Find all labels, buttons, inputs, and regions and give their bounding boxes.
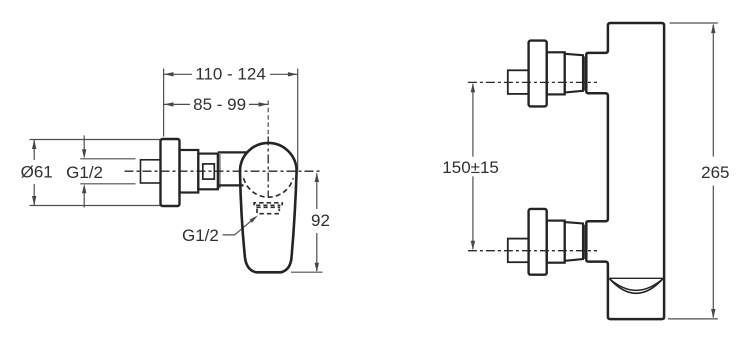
svg-text:G1/2: G1/2 xyxy=(182,226,219,245)
svg-text:Ø61: Ø61 xyxy=(21,163,53,182)
svg-text:G1/2: G1/2 xyxy=(66,163,103,182)
svg-text:85 - 99: 85 - 99 xyxy=(193,95,246,114)
svg-text:92: 92 xyxy=(311,211,330,230)
svg-text:110 - 124: 110 - 124 xyxy=(195,65,266,84)
svg-text:265: 265 xyxy=(701,163,729,182)
svg-text:150±15: 150±15 xyxy=(442,158,499,177)
